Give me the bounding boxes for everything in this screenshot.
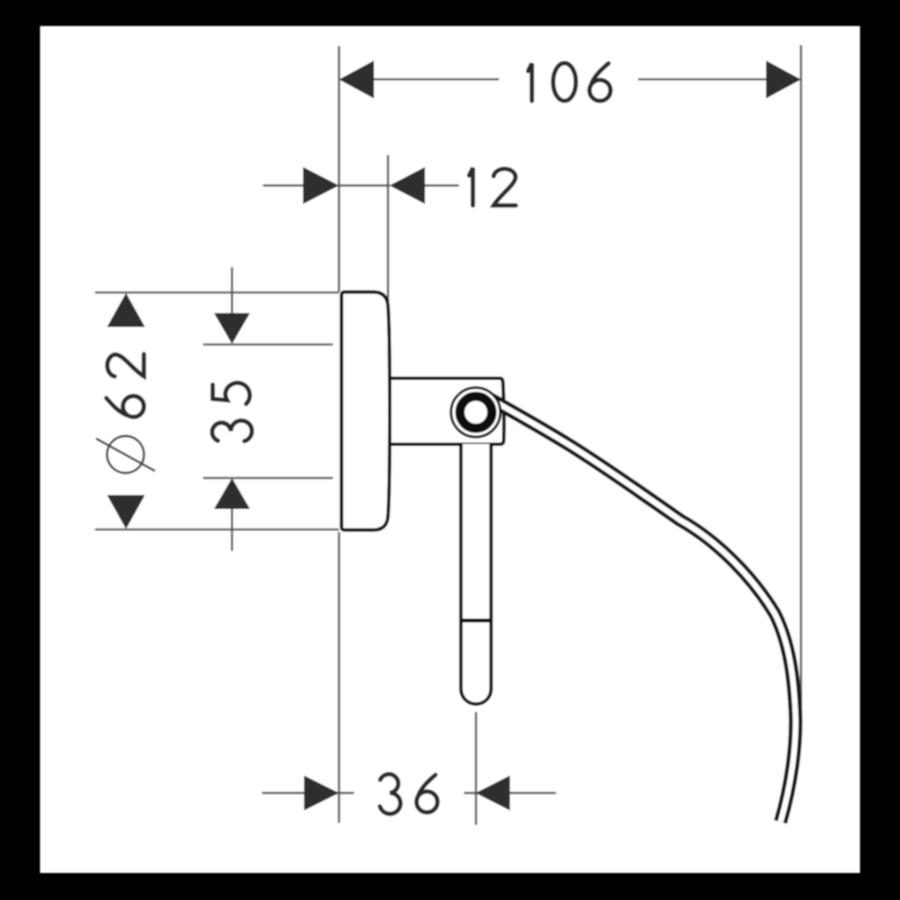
dimension 35: top arrowhead pointing down	[214, 313, 250, 344]
dimension 106: text	[528, 63, 610, 101]
dimension d62: bottom arrowhead pointing down	[107, 495, 145, 529]
dimension 36: left lead line	[262, 792, 354, 794]
dimension d62: top extension line	[95, 291, 339, 293]
rod joint line	[460, 619, 492, 623]
dimension 35: top extension line	[203, 343, 333, 345]
dimension d62: diameter symbol slash	[96, 439, 155, 472]
extension line: rod centre x=476 below rod	[475, 712, 477, 825]
dimension 106: line left segment	[372, 78, 499, 80]
dimension d62: rotated text 62	[106, 354, 144, 417]
dimension 35: top stem	[231, 267, 233, 315]
extension line: right of 106 at x=801	[800, 45, 802, 712]
spring wire (inner white)	[490, 399, 796, 822]
extension line: wall plane (left, x=339) upper part	[338, 46, 340, 292]
holder arm (horizontal)	[388, 378, 504, 444]
pivot hub ring	[460, 396, 492, 428]
pivot outer wrap circle	[451, 388, 500, 437]
dimension d62: diameter symbol circle	[107, 436, 144, 473]
vertical rod with rounded bottom	[461, 444, 491, 704]
dimension 36: right lead line	[464, 792, 556, 794]
spring wire (outer black)	[490, 399, 796, 822]
dimension 36: right arrowhead pointing left	[476, 776, 511, 811]
dimension 36: left arrowhead pointing right	[304, 776, 339, 811]
dimension 106: right arrowhead	[766, 61, 801, 99]
dimension 35: bottom stem	[231, 508, 233, 551]
dimension 36: text	[380, 774, 438, 814]
dimension 35: bottom arrowhead pointing up	[214, 478, 250, 509]
dimension d62: bottom extension line	[95, 528, 339, 530]
dimension 12: left lead line	[263, 184, 307, 186]
dimension 35: rotated text	[212, 383, 252, 441]
wall plate (escutcheon side view)	[342, 292, 390, 530]
dimension 12: line between tips	[338, 184, 390, 186]
extension line: wall plane (left, x=339) lower part	[338, 532, 340, 823]
dimension 106: line right segment	[638, 78, 766, 80]
dimension 35: bottom extension line	[203, 477, 333, 479]
dimension 12: right lead line	[422, 184, 459, 186]
dimension 12: right arrowhead pointing left	[390, 167, 426, 204]
extension line: x=388 for 12 dim	[387, 155, 389, 376]
dimension 106: left arrowhead	[339, 61, 374, 99]
dimension d62: top arrowhead pointing up	[107, 293, 145, 327]
dimension 12: left arrowhead pointing right	[303, 167, 339, 204]
dimension 12: text	[469, 168, 516, 206]
